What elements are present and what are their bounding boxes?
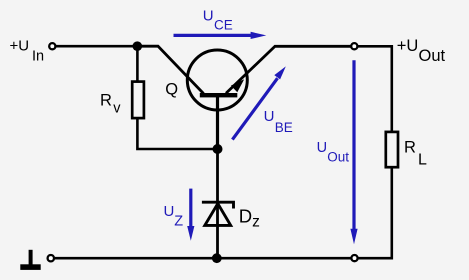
svg-text:z: z: [252, 213, 260, 230]
svg-text:L: L: [418, 151, 427, 168]
wire top-left from +Uin terminal to junction: [55, 45, 140, 48]
node C junction dot bottom: [212, 253, 222, 263]
wire emitter: base bar to top-right corner: [226, 46, 354, 93]
wire collector: junction to transistor base bar: [137, 46, 203, 93]
svg-text:Out: Out: [419, 47, 446, 65]
wire terminal to top-right corner and down to RL: [358, 46, 392, 132]
transistor Q base lead: [216, 96, 219, 149]
ground: [20, 250, 40, 270]
resistor RL: [386, 132, 398, 167]
resistor Rv: [132, 82, 144, 119]
wire Rv bottom to corner: [137, 118, 217, 149]
terminal +Uout: [351, 43, 357, 49]
svg-text:+U: +U: [10, 38, 30, 55]
svg-text:U: U: [203, 8, 214, 25]
svg-text:U: U: [164, 203, 175, 220]
voltage arrow UBE: [232, 66, 285, 139]
svg-text:D: D: [239, 206, 252, 227]
voltage arrow UOut: [350, 60, 357, 244]
svg-text:U: U: [264, 108, 275, 125]
wire RL bottom to bottom-right corner: [55, 167, 392, 258]
voltage arrow UCE: [174, 32, 267, 39]
voltage arrow UZ: [187, 189, 194, 241]
terminal +Uin: [49, 43, 55, 49]
svg-text:U: U: [317, 140, 327, 156]
svg-text:R: R: [100, 92, 112, 110]
svg-text:In: In: [32, 49, 44, 65]
svg-text:R: R: [404, 139, 416, 157]
transistor Q emitter arrowhead: [231, 79, 244, 92]
wire junction to Rv top: [136, 46, 139, 82]
transistor Q base bar: [200, 93, 238, 97]
svg-text:Q: Q: [165, 81, 178, 99]
node A junction dot at Rv top: [133, 41, 143, 51]
terminal bottom-right open circle: [351, 255, 357, 261]
svg-text:Z: Z: [174, 213, 183, 229]
zener diode Dz cathode bar with hook: [202, 202, 234, 208]
terminal ground open circle: [48, 255, 54, 261]
svg-text:BE: BE: [275, 120, 293, 135]
zener diode Dz triangle: [205, 204, 231, 226]
svg-text:+U: +U: [397, 37, 419, 55]
svg-text:v: v: [113, 101, 121, 117]
zener diode Dz lead from base node: [216, 149, 219, 258]
node B junction dot base node: [213, 144, 223, 154]
svg-text:CE: CE: [214, 18, 233, 33]
transistor Q circle: [187, 50, 247, 110]
svg-text:Out: Out: [327, 150, 349, 165]
